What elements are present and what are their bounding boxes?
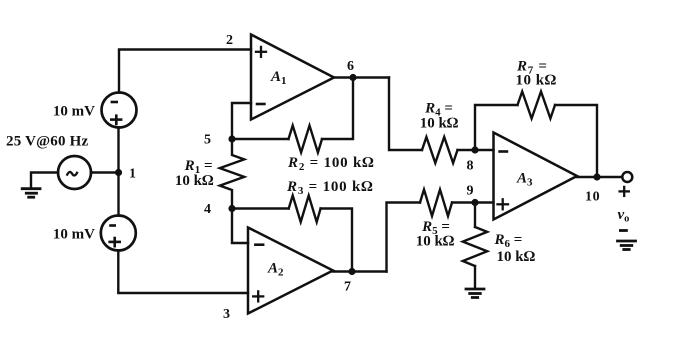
polarity marks V2 (− top, + bottom): [108, 226, 121, 248]
wire R7 to node 10: [555, 105, 597, 177]
A3 noninverting input marker (+): [498, 199, 509, 209]
op-amp A2: [248, 228, 333, 314]
resistor R5: [420, 190, 452, 217]
wire R6 to ground: [474, 266, 476, 289]
wire R2 to node 6: [322, 78, 353, 140]
wire R4 to node 8: [458, 149, 476, 151]
svg-text:10 kΩ: 10 kΩ: [497, 249, 536, 265]
wire V2 to node 3 (bottom rail): [118, 251, 248, 294]
A2 noninverting input marker (+): [253, 291, 263, 301]
wire A3 output to terminal: [577, 176, 622, 178]
wire node 6 to R4: [389, 78, 422, 151]
ground (below R6): [466, 289, 484, 298]
wire node 1 down to V2: [117, 176, 119, 216]
voltage source V2 (10 mV, bottom): [101, 216, 136, 251]
wire A2 output to corner: [333, 270, 387, 272]
node 5 (junction dot): [228, 135, 235, 142]
wire node 8 up to R7: [475, 105, 518, 150]
resistor R3: [289, 196, 321, 223]
node 4 (junction dot): [228, 205, 235, 212]
polarity marks V1 (− top, + bottom): [110, 102, 122, 125]
voltage source V1 (10 mV, top): [102, 93, 137, 128]
svg-text:5: 5: [204, 133, 211, 148]
svg-text:3: 3: [223, 307, 230, 322]
wire node 7 to R5: [387, 203, 421, 272]
wire Vs to node 1: [91, 171, 119, 173]
label R6 value: [494, 232, 536, 265]
ground (source reference, left): [22, 189, 40, 198]
svg-text:2: 2: [226, 33, 233, 48]
node 9 (junction dot): [471, 199, 478, 206]
wire node 9 down to R6: [474, 203, 476, 228]
resistor R7: [518, 92, 556, 119]
output terminal (open circle): [622, 172, 632, 182]
wire node 5 to R2: [232, 138, 289, 140]
wire node 1 up to V1: [117, 128, 119, 170]
label − output polarity: [620, 229, 626, 232]
svg-text:10 mV: 10 mV: [53, 227, 95, 243]
svg-text:10 kΩ: 10 kΩ: [420, 116, 459, 132]
svg-text:9: 9: [467, 184, 474, 199]
svg-text:10 kΩ: 10 kΩ: [516, 73, 557, 89]
svg-text:1: 1: [129, 167, 136, 182]
wire A1 output to corner: [334, 76, 389, 78]
voltage source Vs (25 V @ 60 Hz sine source): [58, 156, 91, 189]
svg-text:10 kΩ: 10 kΩ: [416, 234, 455, 250]
A3 inverting input marker (−): [500, 150, 507, 153]
wire V1 to node 2 (top rail): [119, 50, 251, 93]
ground (output reference): [618, 241, 636, 250]
label R7 value: [516, 59, 557, 89]
A1 noninverting input marker (+): [256, 47, 266, 57]
label + output polarity: [620, 187, 629, 196]
wire node 8 to A3 inverting input: [475, 149, 494, 151]
node 8 (junction dot): [471, 146, 478, 153]
resistor R6 (vertical): [463, 227, 487, 266]
label R5 value: [416, 219, 455, 250]
A2 inverting input marker (−): [255, 243, 263, 246]
svg-text:10 kΩ: 10 kΩ: [175, 173, 214, 189]
resistor R2: [289, 126, 323, 153]
label R4 value: [420, 101, 459, 132]
node 10 (junction dot): [593, 173, 600, 180]
wire node 4 to A2 inverting input: [232, 209, 248, 244]
svg-text:8: 8: [467, 159, 474, 174]
svg-text:10: 10: [585, 190, 600, 205]
wire node 9 to A3 noninverting input: [475, 201, 494, 203]
wire A1 inverting input to node 5: [232, 103, 251, 139]
wire R3 to node 7: [321, 209, 352, 272]
op-amp A1: [251, 35, 334, 120]
svg-text:10 mV: 10 mV: [53, 104, 95, 120]
A1 inverting input marker (−): [257, 103, 264, 106]
svg-text:7: 7: [344, 280, 351, 295]
resistor R1 (vertical, between nodes 5 and 4): [220, 139, 244, 209]
resistor R4: [422, 137, 458, 163]
svg-text:25 V@60 Hz: 25 V@60 Hz: [6, 134, 88, 150]
label R1 value: [175, 158, 214, 189]
node 1 (junction dot): [115, 169, 122, 176]
node 6 (junction dot): [349, 74, 356, 81]
node 7 (junction dot): [348, 268, 355, 275]
wire Vs to ground: [31, 173, 58, 189]
wire node 4 to R3: [232, 207, 289, 209]
svg-text:6: 6: [347, 59, 354, 74]
op-amp A3: [494, 133, 578, 220]
wire R5 to node 9: [452, 201, 475, 203]
svg-text:4: 4: [204, 202, 211, 217]
